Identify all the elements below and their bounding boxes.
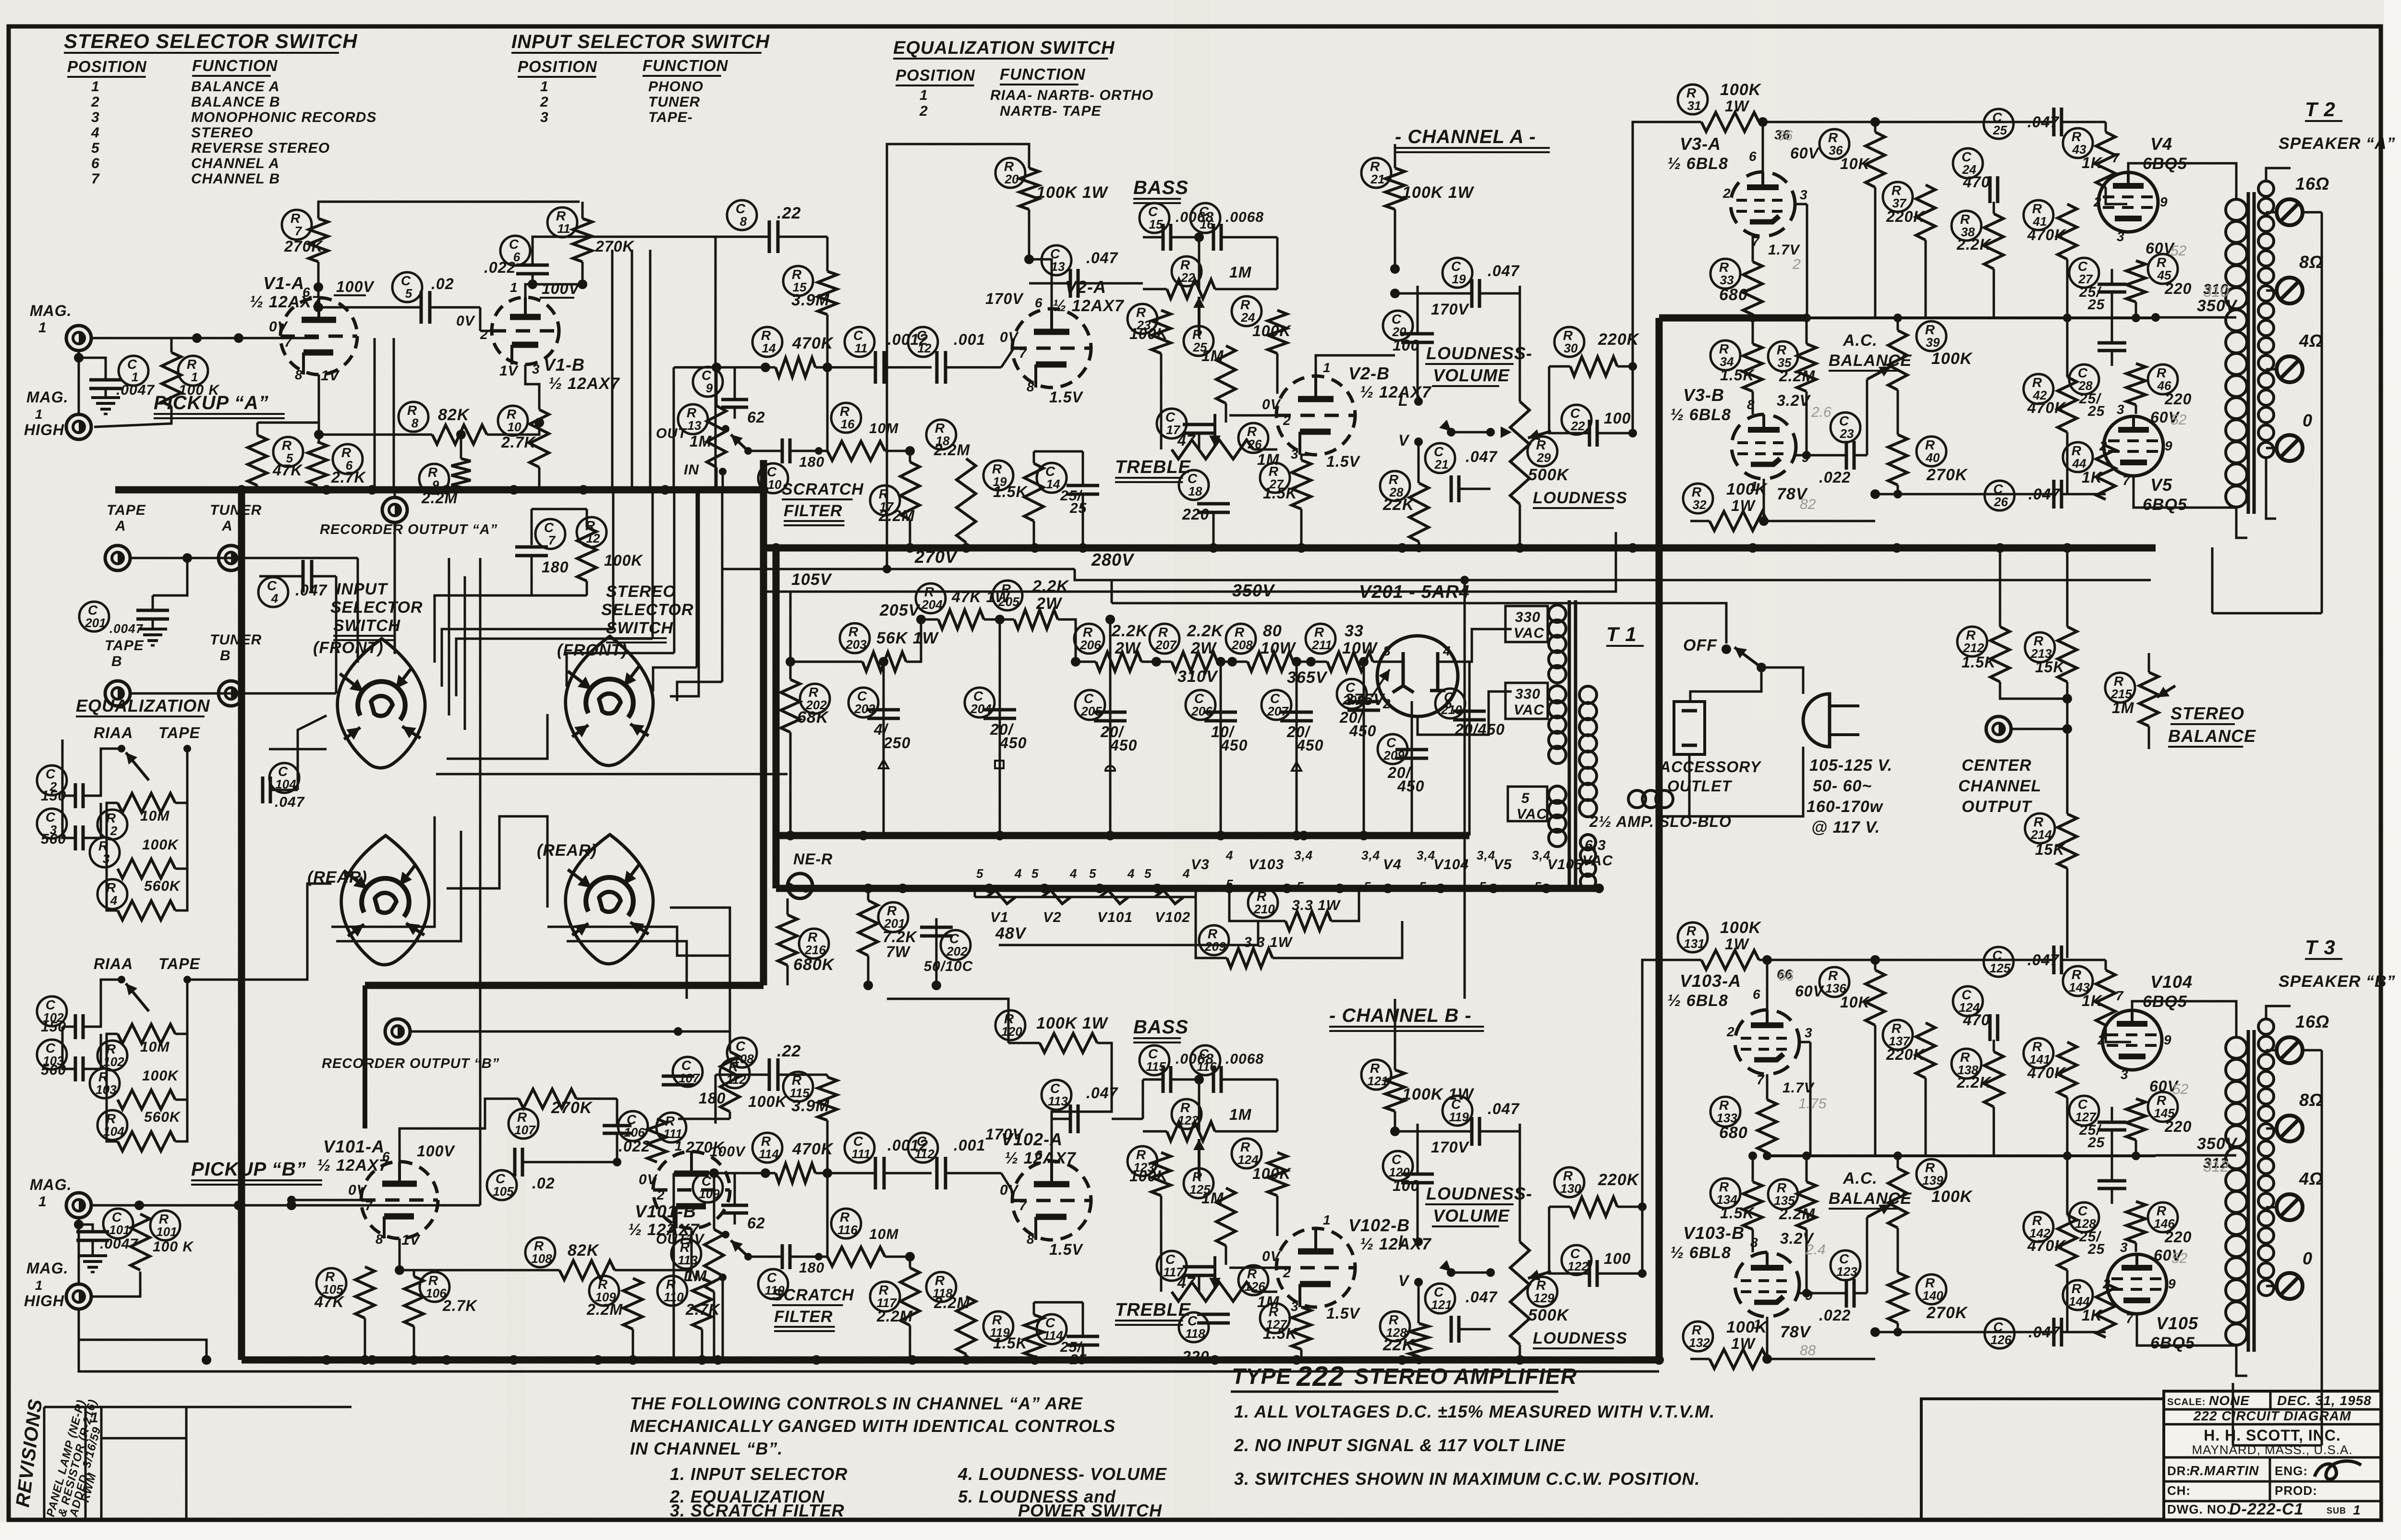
resistor R114: [752, 1133, 782, 1163]
svg-text:82K: 82K: [568, 1241, 600, 1260]
330VAC box bottom: [1505, 683, 1548, 719]
svg-text:52: 52: [2171, 412, 2187, 428]
plate link V1B: [525, 284, 582, 297]
resistor R33: [1710, 259, 1740, 289]
svg-text:31: 31: [1687, 98, 1701, 113]
capacitor C12: [908, 327, 938, 357]
capacitor C125: [1984, 947, 2013, 977]
junction: [713, 1355, 723, 1365]
svg-text:107: 107: [514, 1123, 536, 1137]
wire: [1029, 144, 1395, 145]
wire: [789, 662, 792, 679]
svg-text:1: 1: [920, 87, 928, 103]
resistor R9: [419, 464, 449, 494]
junction: [1892, 543, 1902, 553]
svg-text:4: 4: [271, 591, 279, 606]
svg-text:220: 220: [1182, 1348, 1209, 1365]
input selector front: [338, 639, 425, 768]
capacitor C206: [1186, 690, 1215, 720]
capacitor C208: [1337, 679, 1367, 709]
svg-text:CHANNEL B: CHANNEL B: [191, 171, 280, 187]
svg-text:2.2M: 2.2M: [586, 1301, 623, 1318]
junction: [1397, 1355, 1407, 1365]
svg-text:0V: 0V: [1262, 397, 1282, 412]
svg-text:560K: 560K: [144, 878, 181, 894]
svg-text:1V: 1V: [499, 363, 519, 379]
svg-text:V103: V103: [1249, 857, 1284, 873]
stereo selector rear: [566, 835, 653, 964]
svg-text:100K: 100K: [142, 837, 179, 853]
capacitor C117: [1157, 1251, 1187, 1281]
svg-text:105V: 105V: [791, 570, 833, 589]
svg-text:TAPE: TAPE: [107, 502, 146, 518]
svg-text:170V: 170V: [985, 1126, 1024, 1143]
svg-text:220: 220: [2164, 280, 2192, 297]
svg-text:100: 100: [1604, 1250, 1631, 1267]
resistor R42: [2024, 374, 2053, 404]
svg-text:118: 118: [1185, 1326, 1205, 1341]
svg-text:312: 312: [2203, 1158, 2229, 1175]
resistor R40: [1916, 437, 1946, 466]
resistor R132: [1683, 1322, 1713, 1351]
resistor R136: [1819, 967, 1849, 997]
resistor R128: [1380, 1311, 1410, 1341]
wire: [1373, 661, 1397, 663]
capacitor C4: [258, 577, 288, 607]
svg-text:V: V: [1398, 432, 1410, 449]
svg-text:1W: 1W: [1725, 97, 1750, 115]
capacitor C126: [1985, 1319, 2014, 1348]
wire: [91, 337, 319, 340]
svg-text:52: 52: [2171, 243, 2187, 259]
svg-text:6: 6: [382, 1149, 390, 1164]
svg-text:3.3 1W: 3.3 1W: [1292, 897, 1341, 913]
svg-text:5: 5: [1089, 866, 1096, 881]
resistor R44: [2063, 442, 2093, 472]
svg-text:25: 25: [2087, 1135, 2105, 1151]
svg-text:ACCESSORY: ACCESSORY: [1659, 758, 1762, 776]
svg-text:POSITION: POSITION: [518, 58, 597, 75]
svg-text:108: 108: [531, 1251, 552, 1266]
vertical feeds: [715, 237, 717, 490]
svg-text:V103-A: V103-A: [1680, 971, 1741, 991]
resistor R213: [2025, 632, 2055, 662]
svg-text:100V: 100V: [542, 280, 580, 297]
svg-text:3,4: 3,4: [1532, 848, 1551, 862]
junction: [1335, 884, 1345, 893]
svg-text:10M: 10M: [869, 421, 898, 437]
svg-text:25: 25: [2087, 297, 2105, 313]
svg-text:126: 126: [1990, 1333, 2012, 1347]
svg-text:2.2K: 2.2K: [1187, 622, 1224, 640]
svg-text:8: 8: [376, 1232, 384, 1247]
svg-text:220: 220: [2164, 390, 2192, 408]
resistor R121: [1361, 1060, 1391, 1090]
junction: [1436, 884, 1445, 893]
svg-text:204: 204: [921, 597, 943, 612]
junction: [1515, 1355, 1525, 1365]
svg-text:10W: 10W: [1342, 639, 1378, 657]
svg-text:MAG.: MAG.: [26, 1260, 69, 1277]
plate rail A: [318, 202, 580, 218]
capacitor C15: [1140, 203, 1169, 233]
svg-text:160-170w: 160-170w: [1807, 798, 1884, 816]
svg-text:1.7V: 1.7V: [1783, 1080, 1815, 1096]
svg-text:1: 1: [540, 79, 549, 95]
svg-text:FILTER: FILTER: [774, 1308, 833, 1326]
svg-text:4: 4: [1014, 866, 1022, 881]
resistor R20: [995, 158, 1025, 188]
svg-text:7: 7: [2112, 150, 2120, 165]
svg-text:VOLUME: VOLUME: [1433, 365, 1510, 385]
wire: [1438, 629, 1512, 662]
svg-text:100K: 100K: [142, 1068, 179, 1084]
svg-text:RIAA- NARTB- ORTHO: RIAA- NARTB- ORTHO: [990, 87, 1153, 103]
wire: [61, 740, 64, 796]
wire output A screen rail: [1807, 316, 2156, 319]
junction: [1628, 543, 1637, 553]
resistor R12: [577, 517, 606, 547]
svg-text:39: 39: [1926, 335, 1940, 350]
svg-text:RECORDER OUTPUT “A”: RECORDER OUTPUT “A”: [320, 522, 497, 537]
svg-text:1.5K: 1.5K: [993, 1334, 1028, 1352]
svg-text:EQUALIZATION SWITCH: EQUALIZATION SWITCH: [893, 38, 1115, 58]
psu ground bus: [776, 832, 1469, 839]
svg-text:7W: 7W: [886, 943, 911, 960]
svg-text:140: 140: [1922, 1288, 1943, 1303]
wire: [1688, 754, 1691, 816]
resistor R209: [1199, 925, 1229, 955]
wire: [886, 202, 887, 569]
resistor R146: [2148, 1202, 2178, 1232]
capacitor C201: [79, 602, 109, 631]
treble pot R126: [1238, 1265, 1268, 1295]
junction: [1297, 543, 1306, 553]
svg-text:MAG.: MAG.: [30, 302, 72, 319]
svg-text:2.2M: 2.2M: [934, 441, 970, 459]
wire: [1199, 415, 1276, 449]
svg-text:250: 250: [883, 734, 910, 752]
svg-text:½ 12AX7: ½ 12AX7: [548, 375, 620, 393]
wire: [1293, 661, 1327, 663]
48V wire: [999, 922, 1258, 945]
svg-text:52: 52: [2172, 1081, 2189, 1097]
svg-text:ENG:: ENG:: [2275, 1464, 2308, 1478]
loudness network A: [1519, 286, 1521, 293]
svg-text:16Ω: 16Ω: [2295, 1012, 2329, 1031]
screen rail B: [1767, 1154, 2156, 1157]
svg-text:310: 310: [2203, 283, 2229, 300]
svg-text:82K: 82K: [438, 406, 470, 424]
junction: [322, 485, 331, 495]
B+ bus: [764, 545, 2156, 552]
svg-text:210: 210: [1253, 902, 1275, 916]
junction: [984, 884, 994, 893]
fuse 2.5A slo-blo: [1628, 790, 1646, 808]
svg-text:15: 15: [1149, 217, 1163, 231]
capacitor C111: [845, 1133, 874, 1163]
svg-text:7: 7: [284, 335, 292, 350]
svg-text:.0047: .0047: [100, 1236, 138, 1252]
svg-text:100V: 100V: [417, 1142, 455, 1160]
recorder A wires: [394, 490, 396, 497]
270V rail: [723, 568, 1075, 570]
svg-text:208: 208: [1231, 638, 1253, 652]
svg-text:100 K: 100 K: [179, 382, 220, 398]
junction: [442, 485, 451, 495]
resistor R216: [799, 929, 829, 958]
svg-text:.001: .001: [954, 331, 985, 348]
svg-text:½ 6BL8: ½ 6BL8: [1670, 1244, 1731, 1262]
svg-text:14: 14: [762, 341, 776, 355]
capacitor C28: [2069, 364, 2099, 394]
svg-text:206: 206: [1079, 638, 1101, 652]
svg-text:9: 9: [2168, 1276, 2176, 1291]
svg-text:7: 7: [2122, 473, 2131, 488]
svg-text:108: 108: [733, 1052, 754, 1066]
svg-text:40: 40: [1926, 450, 1940, 465]
svg-text:2.2M: 2.2M: [934, 1294, 970, 1311]
capacitor C108: [727, 1038, 757, 1067]
resistor R138: [1952, 1049, 1981, 1079]
wire grid V1B: [479, 307, 482, 331]
svg-text:V104: V104: [2150, 972, 2193, 992]
svg-text:L: L: [1398, 392, 1408, 409]
svg-text:4: 4: [91, 125, 100, 141]
harness verticals B: [374, 338, 376, 490]
svg-text:.047: .047: [1466, 1288, 1498, 1306]
junction: [579, 485, 588, 495]
svg-text:V2-B: V2-B: [1348, 364, 1390, 383]
svg-text:2: 2: [2093, 194, 2102, 209]
bass pot R122: [1172, 1099, 1201, 1129]
svg-text:5: 5: [1479, 879, 1486, 894]
capacitor C5: [392, 272, 422, 302]
svg-text:62: 62: [747, 409, 765, 426]
svg-text:V105: V105: [1547, 857, 1583, 873]
svg-text:201: 201: [85, 616, 106, 630]
svg-text:170V: 170V: [1431, 1139, 1469, 1156]
svg-text:1: 1: [90, 1410, 99, 1426]
svg-text:8: 8: [1383, 643, 1391, 658]
channel B feeds: [715, 1124, 716, 1173]
svg-text:0V: 0V: [1000, 1182, 1019, 1198]
svg-text:LOUDNESS: LOUDNESS: [1533, 489, 1627, 507]
T1 HV winding top: [1549, 605, 1566, 622]
svg-text:9: 9: [2165, 438, 2173, 453]
svg-text:BASS: BASS: [1133, 177, 1188, 198]
svg-text:88: 88: [1800, 1343, 1816, 1358]
title block: [2164, 1391, 2381, 1520]
harness selector to eq: [269, 748, 327, 751]
svg-text:4: 4: [1225, 848, 1233, 862]
svg-text:TAPE: TAPE: [158, 955, 201, 972]
svg-text:.022: .022: [484, 259, 516, 276]
resistor R207: [1150, 624, 1179, 654]
potentiometer R215 stereo balance: [2105, 673, 2135, 703]
svg-text:½ 12AX7: ½ 12AX7: [250, 293, 322, 311]
T1 core: [1568, 600, 1571, 888]
svg-text:220K: 220K: [1598, 1171, 1640, 1189]
svg-text:STEREO AMPLIFIER: STEREO AMPLIFIER: [1354, 1364, 1577, 1389]
svg-text:5: 5: [1534, 879, 1541, 894]
scratch filter B: [674, 1172, 776, 1175]
svg-text:FUNCTION: FUNCTION: [1000, 65, 1086, 83]
capacitor C115: [1140, 1045, 1169, 1075]
svg-text:19: 19: [1452, 272, 1466, 286]
wire: [1008, 998, 1395, 999]
svg-text:TUNER: TUNER: [648, 94, 700, 110]
svg-text:21: 21: [1434, 457, 1449, 472]
5VAC box: [1508, 787, 1547, 821]
svg-text:1: 1: [510, 280, 518, 295]
resistor R214: [2025, 813, 2055, 843]
svg-text:113: 113: [678, 1253, 698, 1267]
svg-text:MAG.: MAG.: [26, 388, 69, 406]
svg-text:203: 203: [845, 637, 867, 652]
svg-text:SCRATCH: SCRATCH: [772, 1286, 854, 1304]
wire: [1196, 888, 1227, 958]
junction: [859, 831, 868, 840]
junction: [1748, 543, 1758, 553]
svg-text:10M: 10M: [140, 808, 170, 824]
resistor R118: [926, 1272, 956, 1302]
svg-text:80: 80: [1263, 622, 1282, 640]
svg-text:3,4: 3,4: [1417, 848, 1435, 862]
resistor R124: [1232, 1139, 1261, 1168]
svg-text:270K: 270K: [1926, 1304, 1968, 1322]
junction: [1292, 1355, 1301, 1365]
svg-text:101: 101: [156, 1225, 177, 1239]
svg-text:2.6: 2.6: [1811, 404, 1831, 420]
resistor R131: [1678, 922, 1708, 952]
ground link to output A: [1659, 315, 1807, 322]
svg-text:1: 1: [675, 1139, 683, 1153]
svg-text:212: 212: [1963, 641, 1984, 655]
svg-text:6: 6: [1444, 696, 1453, 711]
svg-text:16: 16: [841, 417, 855, 431]
wire: [1761, 667, 1803, 694]
resistor R134: [1710, 1178, 1740, 1208]
svg-text:470: 470: [1963, 1011, 1990, 1029]
capacitor C16: [1190, 203, 1220, 233]
ground: [91, 396, 120, 399]
resistor R37: [1883, 182, 1913, 212]
T1 primary winding: [1579, 686, 1597, 703]
T3 secondary return: [2303, 1049, 2322, 1052]
capacitor C13: [1042, 245, 1071, 275]
resistor R208: [1226, 624, 1256, 654]
junction: [1209, 543, 1218, 553]
svg-text:120: 120: [1001, 1024, 1022, 1039]
svg-text:0: 0: [2303, 411, 2313, 430]
svg-text:TAPE: TAPE: [158, 724, 201, 741]
svg-text:100K 1W: 100K 1W: [1402, 1085, 1475, 1103]
svg-text:78V: 78V: [1780, 1323, 1812, 1341]
junction: [1397, 543, 1407, 553]
svg-text:@ 117 V.: @ 117 V.: [1811, 818, 1880, 837]
svg-text:1V: 1V: [321, 368, 340, 384]
svg-text:1: 1: [1323, 360, 1331, 375]
resistor R133: [1710, 1097, 1740, 1127]
svg-text:7: 7: [1019, 1198, 1027, 1213]
svg-text:133: 133: [1716, 1111, 1737, 1125]
svg-text:100K 1W: 100K 1W: [1036, 1014, 1109, 1032]
resistor R210: [1248, 888, 1278, 918]
capacitor C104: [269, 763, 299, 793]
svg-text:100K: 100K: [748, 1093, 788, 1110]
wire: [2000, 682, 2067, 699]
svg-text:.047: .047: [1086, 249, 1118, 267]
svg-text:.02: .02: [431, 275, 454, 292]
junction: [1105, 831, 1115, 840]
svg-text:2.7K: 2.7K: [442, 1297, 478, 1314]
resistor R105: [316, 1268, 346, 1298]
svg-text:109: 109: [699, 1187, 720, 1201]
svg-text:2: 2: [2097, 1032, 2106, 1047]
resistor R143: [2063, 966, 2093, 996]
svg-text:125: 125: [1989, 961, 2011, 975]
svg-text:VAC: VAC: [1582, 853, 1613, 869]
svg-text:130: 130: [1560, 1181, 1581, 1196]
resistor R38: [1952, 211, 1981, 241]
resistor R201: [878, 902, 908, 932]
svg-text:365V: 365V: [1287, 668, 1328, 687]
resistor R110: [657, 1276, 687, 1306]
svg-text:.047: .047: [1488, 262, 1520, 279]
svg-text:2.7K: 2.7K: [331, 469, 366, 486]
svg-text:.047: .047: [1466, 448, 1498, 465]
wire: [1229, 1267, 1276, 1269]
svg-text:36: 36: [1777, 128, 1793, 144]
svg-text:350V: 350V: [1232, 581, 1275, 600]
junction: [660, 485, 670, 495]
svg-text:1.5V: 1.5V: [1049, 1241, 1083, 1258]
svg-text:113: 113: [1048, 1094, 1068, 1108]
svg-text:1M: 1M: [2112, 699, 2134, 716]
resistor R17: [870, 485, 900, 515]
resistor R24: [1232, 296, 1261, 326]
svg-text:HIGH: HIGH: [24, 421, 64, 438]
svg-text:50- 60~: 50- 60~: [1813, 777, 1872, 795]
capacitor C207: [1261, 690, 1291, 720]
svg-text:30: 30: [1564, 341, 1578, 355]
svg-text:6.3: 6.3: [1585, 837, 1606, 853]
svg-text:100V: 100V: [710, 1144, 746, 1160]
capacitor C107: [673, 1057, 703, 1087]
svg-text:180: 180: [542, 558, 569, 576]
svg-text:8: 8: [1027, 379, 1035, 394]
capacitor C204: [965, 688, 994, 717]
resistor R203: [840, 623, 870, 653]
svg-text:IN: IN: [684, 1268, 699, 1284]
junction: [2062, 543, 2072, 553]
svg-text:7: 7: [1757, 1072, 1765, 1087]
svg-text:T 3: T 3: [2305, 936, 2336, 958]
svg-text:3: 3: [1291, 1299, 1299, 1314]
svg-text:680K: 680K: [793, 956, 835, 974]
svg-text:STEREO: STEREO: [606, 582, 676, 601]
svg-text:4: 4: [1443, 643, 1451, 658]
svg-text:100K 1W: 100K 1W: [1036, 183, 1109, 202]
330VAC box top: [1505, 606, 1548, 642]
junction: [1282, 884, 1292, 893]
svg-text:V5: V5: [2150, 475, 2172, 495]
svg-text:1: 1: [35, 407, 43, 422]
svg-text:60V: 60V: [1790, 145, 1820, 162]
svg-text:207: 207: [1155, 638, 1177, 652]
capacitor C116: [1190, 1045, 1220, 1075]
